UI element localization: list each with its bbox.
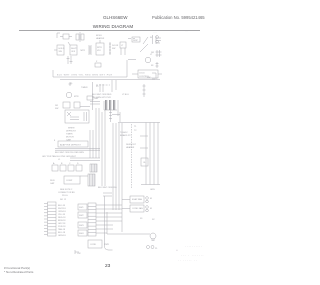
svg-text:DOOR: DOOR bbox=[112, 45, 119, 47]
svg-text:HEATER: HEATER bbox=[126, 146, 135, 149]
svg-text:BLK WHT ORN RED: BLK WHT ORN RED bbox=[92, 94, 112, 96]
svg-text:DEFROST: DEFROST bbox=[66, 131, 77, 133]
svg-text:GRN-18: GRN-18 bbox=[58, 235, 66, 237]
svg-text:BLU-18: BLU-18 bbox=[58, 232, 66, 234]
svg-text:TIMER: TIMER bbox=[81, 87, 88, 89]
svg-text:HOLD: HOLD bbox=[59, 48, 65, 50]
svg-text:BLK-18: BLK-18 bbox=[58, 205, 66, 207]
svg-text:HEATER: HEATER bbox=[96, 37, 105, 40]
svg-text:CORD: CORD bbox=[90, 244, 97, 246]
svg-text:BLK WHT ORN YEL: BLK WHT ORN YEL bbox=[98, 187, 118, 189]
svg-text:BLK WHT ORN YEL RED BRN GRY PU: BLK WHT ORN YEL RED BRN GRY PUR bbox=[57, 75, 113, 77]
svg-text:RUN: RUN bbox=[50, 180, 55, 182]
svg-text:M: M bbox=[150, 198, 152, 200]
svg-text:RED-18: RED-18 bbox=[58, 217, 66, 219]
svg-text:GRY-18: GRY-18 bbox=[58, 223, 66, 225]
svg-text:BLK WHT ORN YEL RED BRN: BLK WHT ORN YEL RED BRN bbox=[55, 152, 84, 154]
svg-text:NO 12: NO 12 bbox=[60, 199, 67, 201]
svg-text:WIRING DIAGRAM: WIRING DIAGRAM bbox=[93, 24, 134, 29]
svg-text:WHITE: WHITE bbox=[68, 128, 75, 130]
svg-text:GLHS66EW: GLHS66EW bbox=[103, 15, 128, 20]
svg-text:CONTROL: CONTROL bbox=[139, 76, 150, 78]
svg-text:DISP: DISP bbox=[133, 40, 138, 42]
svg-text:MTR: MTR bbox=[80, 50, 85, 52]
svg-text:* Non-Illustrated Parts: * Non-Illustrated Parts bbox=[4, 270, 34, 274]
svg-text:VLV: VLV bbox=[97, 50, 101, 52]
svg-text:..........: .......... bbox=[185, 244, 203, 248]
svg-text:GRY PUR TAN BLU PNK GRN WHT: GRY PUR TAN BLU PNK GRN WHT bbox=[42, 155, 77, 158]
svg-text:SW: SW bbox=[112, 48, 115, 50]
svg-text:... . .......: ... . ....... bbox=[181, 253, 204, 257]
svg-text:MOLD: MOLD bbox=[96, 35, 103, 37]
svg-text:SHUT: SHUT bbox=[71, 48, 77, 50]
svg-text:OFF: OFF bbox=[71, 51, 76, 53]
svg-text:TO ADC: TO ADC bbox=[120, 131, 128, 134]
svg-text:CAM: CAM bbox=[66, 139, 71, 142]
svg-text:Publication No. 5995421465: Publication No. 5995421465 bbox=[152, 15, 205, 20]
svg-text:WHT-18: WHT-18 bbox=[58, 208, 66, 210]
svg-text:.. ..... ..: .. ..... .. bbox=[178, 258, 198, 262]
svg-text:CAP: CAP bbox=[50, 182, 55, 185]
svg-text:EVAP FAN: EVAP FAN bbox=[132, 198, 142, 201]
svg-text:CW: CW bbox=[77, 253, 81, 255]
svg-text:M: M bbox=[150, 208, 152, 210]
svg-text:DEFROST: DEFROST bbox=[126, 144, 137, 146]
svg-text:. . .: . . . bbox=[185, 31, 188, 33]
svg-text:LT BLU: LT BLU bbox=[122, 94, 129, 96]
svg-text:PLUG: PLUG bbox=[62, 195, 68, 197]
svg-text:MOTOR: MOTOR bbox=[66, 137, 74, 139]
svg-text:PWR: PWR bbox=[104, 244, 109, 246]
svg-text:SW: SW bbox=[59, 51, 62, 53]
svg-text:COLD: COLD bbox=[139, 73, 145, 75]
svg-text:WTR: WTR bbox=[97, 47, 102, 49]
svg-text:DR: DR bbox=[55, 105, 59, 107]
svg-text:TIMER: TIMER bbox=[66, 134, 73, 136]
svg-text:GRN: GRN bbox=[150, 189, 155, 191]
svg-text:ADAPTIVE DEFROST: ADAPTIVE DEFROST bbox=[60, 144, 82, 147]
svg-text:MTR: MTR bbox=[74, 96, 79, 98]
svg-text:BRN-18: BRN-18 bbox=[58, 220, 66, 222]
svg-text:YEL-18: YEL-18 bbox=[58, 214, 66, 216]
svg-text:COND FAN: COND FAN bbox=[132, 207, 143, 210]
svg-text:PUR-18: PUR-18 bbox=[58, 226, 66, 228]
svg-text:TAN-18: TAN-18 bbox=[58, 228, 66, 231]
svg-text:YEL BRN GRY PUR: YEL BRN GRY PUR bbox=[92, 97, 111, 99]
svg-text:ORN-18: ORN-18 bbox=[58, 211, 66, 213]
svg-text:. . . .: . . . . bbox=[153, 32, 157, 34]
svg-text:SW: SW bbox=[55, 108, 58, 110]
svg-text:DR: DR bbox=[151, 52, 155, 54]
svg-text:23: 23 bbox=[105, 263, 111, 269]
svg-text:CONNECTOR BD: CONNECTOR BD bbox=[58, 192, 75, 194]
svg-text:COMP: COMP bbox=[66, 180, 73, 182]
svg-text:SEE NOTE 2: SEE NOTE 2 bbox=[60, 189, 73, 191]
svg-text:BOARD P2: BOARD P2 bbox=[120, 134, 131, 137]
